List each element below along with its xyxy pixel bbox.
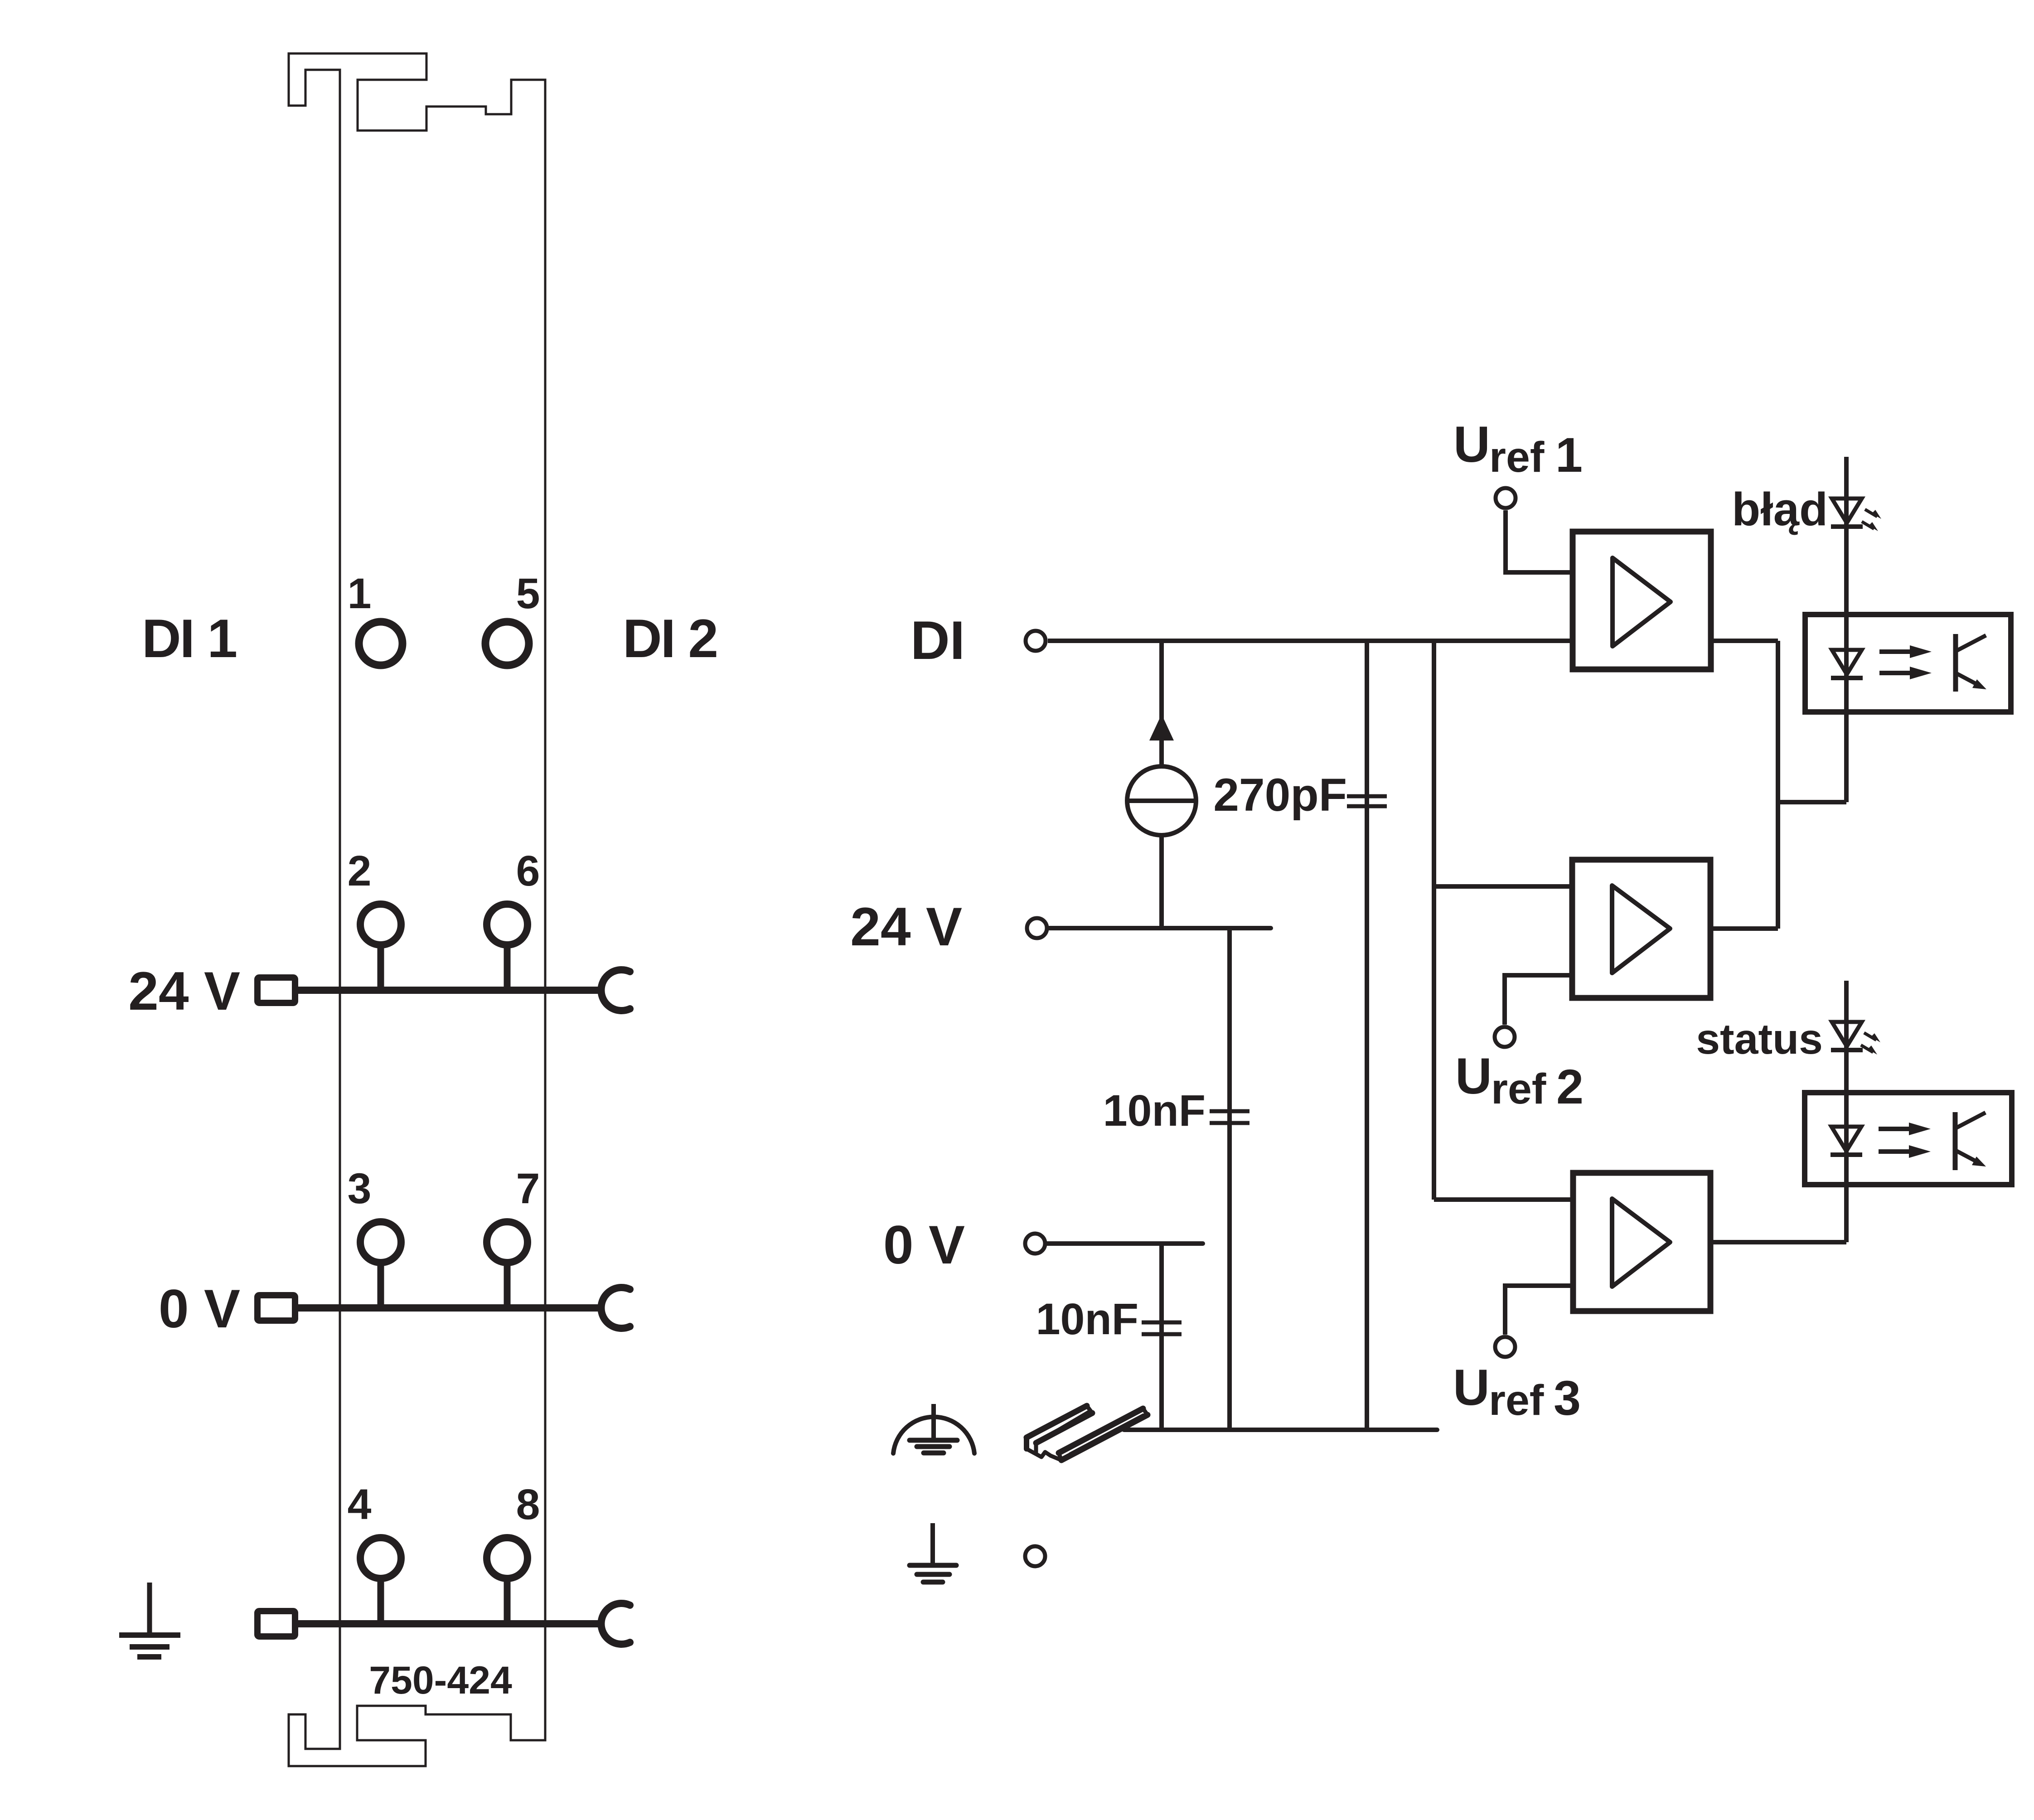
terminal earth xyxy=(1025,1546,1045,1566)
wire Uref3 xyxy=(1505,1286,1573,1335)
noiseless earth stem xyxy=(931,1404,936,1440)
svg-text:6: 6 xyxy=(516,847,540,895)
svg-text:1: 1 xyxy=(348,570,372,618)
terminal Uref2 xyxy=(1495,1027,1515,1047)
svg-text:DI 1: DI 1 xyxy=(142,608,236,669)
op-amp U3 input wire xyxy=(1434,1197,1573,1202)
LED blad xyxy=(1831,499,1863,527)
svg-text:10nF: 10nF xyxy=(1036,1294,1138,1344)
DIN rail symbol xyxy=(1027,1406,1148,1460)
wire amp1 output xyxy=(1711,639,1778,643)
svg-text:status: status xyxy=(1696,1015,1823,1063)
optocoupler 1 box xyxy=(1805,615,2011,712)
LED blad emission arrows xyxy=(1862,509,1881,531)
terminal 24V xyxy=(1027,918,1047,938)
wire stem pin3 xyxy=(378,1265,384,1308)
wire to optocoupler1 xyxy=(1778,800,1846,804)
svg-text:5: 5 xyxy=(516,570,540,618)
svg-text:ref: ref xyxy=(1489,433,1545,481)
wire status chain xyxy=(1844,981,1849,1242)
op-amp U2 box xyxy=(1572,860,1710,998)
wire stem pin6 xyxy=(504,947,511,990)
RIGHT-CIRCUIT xyxy=(850,416,2012,1582)
svg-text:DI: DI xyxy=(910,610,965,671)
current source I xyxy=(1127,766,1196,835)
wire 24V xyxy=(1049,926,1271,930)
svg-text:1: 1 xyxy=(1555,427,1583,482)
wire current-source to 24V xyxy=(1159,835,1164,928)
svg-text:10nF: 10nF xyxy=(1103,1086,1206,1135)
svg-text:ref: ref xyxy=(1489,1376,1544,1424)
contact 5 xyxy=(485,622,529,665)
spring contact earth xyxy=(601,1603,630,1644)
contact 8 xyxy=(487,1538,528,1578)
op-amp U3 box xyxy=(1573,1173,1710,1311)
op-amp U2 triangle xyxy=(1612,886,1670,973)
optocoupler 2 LED xyxy=(1831,1127,1862,1155)
wire amp2/3 branch xyxy=(1432,641,1436,1200)
svg-text:7: 7 xyxy=(516,1165,540,1213)
terminal Uref1 xyxy=(1496,488,1516,508)
wire 270pF branch xyxy=(1365,641,1369,1430)
svg-text:U: U xyxy=(1453,1359,1490,1416)
capacitor 10nF (24V) plates xyxy=(1210,1111,1249,1123)
current source bar xyxy=(1127,799,1196,803)
label Uref 3 xyxy=(1453,1359,1581,1425)
contact 6 xyxy=(487,904,528,945)
capacitor 270pF plates xyxy=(1347,796,1387,806)
label Uref 2 xyxy=(1455,1048,1584,1114)
PINS xyxy=(348,570,540,1578)
svg-text:24 V: 24 V xyxy=(128,961,240,1021)
terminal DI xyxy=(1026,631,1046,651)
POWER-BUSES xyxy=(257,947,630,1644)
terminal 0V xyxy=(1025,1234,1045,1254)
contact 7 xyxy=(487,1222,528,1263)
spring contact 0V xyxy=(601,1288,630,1328)
capacitor 10nF (0V) plates xyxy=(1142,1322,1182,1334)
svg-text:błąd: błąd xyxy=(1732,483,1828,535)
spring contact 24V xyxy=(601,970,630,1011)
ground symbol (module) xyxy=(119,1583,180,1657)
svg-text:270pF: 270pF xyxy=(1213,769,1347,821)
wire amp outputs join xyxy=(1776,641,1780,929)
svg-text:2: 2 xyxy=(348,847,372,895)
wire stem pin8 xyxy=(504,1581,511,1624)
module body outline 750-424 xyxy=(289,53,545,1766)
ground symbol (earth terminal) xyxy=(930,1523,935,1565)
wire 10nF branch xyxy=(1227,928,1232,1430)
wire Uref2 xyxy=(1505,975,1572,1025)
wire amp2 output xyxy=(1710,926,1778,931)
op-amp U2 input wire xyxy=(1434,884,1572,889)
wire LED blad chain xyxy=(1844,457,1849,802)
wire stem pin2 xyxy=(378,947,384,990)
op-amp U3 triangle xyxy=(1612,1199,1670,1287)
contact 3 xyxy=(360,1222,401,1263)
contact 2 xyxy=(360,904,401,945)
svg-text:8: 8 xyxy=(516,1481,540,1529)
svg-text:ref: ref xyxy=(1491,1065,1546,1113)
clamp terminal 24V xyxy=(257,978,295,1003)
svg-text:2: 2 xyxy=(1556,1059,1584,1114)
wire 0V xyxy=(1047,1241,1203,1246)
optocoupler 2 box xyxy=(1805,1093,2012,1185)
wire rail bus xyxy=(1124,1428,1437,1432)
svg-text:DI 2: DI 2 xyxy=(623,608,717,669)
svg-text:750-424: 750-424 xyxy=(369,1659,512,1702)
clamp terminal 0V xyxy=(257,1295,295,1321)
wire Uref1 xyxy=(1506,510,1573,572)
label Uref 1 xyxy=(1453,416,1583,482)
optocoupler 2 phototransistor xyxy=(1955,1112,1986,1170)
svg-text:3: 3 xyxy=(348,1165,372,1213)
LED status xyxy=(1831,1022,1863,1050)
wire 10nF-2 branch xyxy=(1159,1244,1164,1430)
svg-text:24 V: 24 V xyxy=(850,896,962,957)
optocoupler 2 light arrows xyxy=(1879,1123,1931,1158)
contact 4 xyxy=(360,1538,401,1578)
noiseless earth bars xyxy=(910,1440,957,1453)
LABELS-LEFT xyxy=(128,608,717,1702)
arrow current direction xyxy=(1149,714,1174,741)
svg-text:U: U xyxy=(1455,1048,1492,1104)
clamp terminal earth xyxy=(257,1611,295,1636)
contact 1 xyxy=(359,622,402,665)
wire DI main xyxy=(1048,639,1573,643)
LED status emission arrows xyxy=(1861,1033,1880,1055)
terminal Uref3 xyxy=(1495,1337,1515,1357)
svg-text:0 V: 0 V xyxy=(159,1278,240,1339)
wire amp3 output xyxy=(1710,1240,1846,1244)
op-amp U1 box xyxy=(1573,532,1711,669)
svg-text:3: 3 xyxy=(1554,1370,1581,1425)
wire earth bus xyxy=(298,1620,603,1627)
optocoupler 1 LED xyxy=(1831,650,1863,678)
svg-text:4: 4 xyxy=(348,1481,372,1529)
wire 24V bus xyxy=(298,987,603,994)
noiseless earth dome xyxy=(893,1417,974,1453)
optocoupler 1 light arrows xyxy=(1879,645,1932,679)
MODULE-OUTLINE xyxy=(289,53,545,1766)
optocoupler 1 phototransistor xyxy=(1956,634,1986,692)
wire 0V bus xyxy=(298,1304,603,1312)
wire current-source branch xyxy=(1159,641,1164,767)
wire stem pin7 xyxy=(504,1265,511,1308)
svg-text:0 V: 0 V xyxy=(883,1215,965,1275)
wire stem pin4 xyxy=(378,1581,384,1624)
svg-text:U: U xyxy=(1453,416,1490,473)
op-amp U1 triangle xyxy=(1613,558,1671,646)
